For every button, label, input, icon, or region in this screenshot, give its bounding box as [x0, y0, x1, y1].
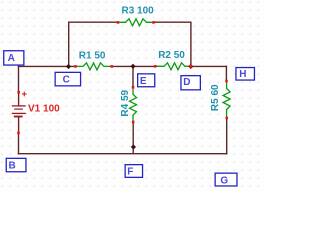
svg-text:R4 59: R4 59	[120, 89, 131, 116]
svg-text:V1 100: V1 100	[28, 104, 60, 115]
svg-text:B: B	[9, 161, 16, 172]
svg-text:R5 60: R5 60	[210, 84, 221, 111]
svg-text:G: G	[220, 176, 228, 187]
svg-text:E: E	[140, 76, 147, 87]
svg-text:R1 50: R1 50	[79, 50, 106, 61]
svg-text:R3 100: R3 100	[122, 5, 155, 16]
svg-text:R2 50: R2 50	[158, 50, 185, 61]
svg-text:D: D	[183, 77, 190, 88]
svg-text:C: C	[63, 75, 70, 86]
svg-text:F: F	[127, 166, 133, 177]
svg-text:H: H	[239, 69, 246, 80]
svg-text:A: A	[8, 53, 15, 64]
